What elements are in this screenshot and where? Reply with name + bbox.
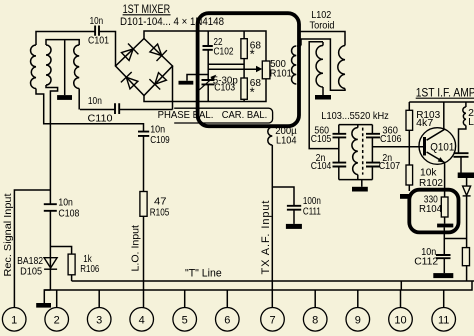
svg-text:L104: L104 <box>276 135 297 147</box>
svg-text:*: * <box>250 85 255 100</box>
svg-text:1: 1 <box>11 314 17 326</box>
svg-text:10: 10 <box>394 314 406 326</box>
svg-text:R105: R105 <box>150 207 170 219</box>
svg-text:C108: C108 <box>58 208 79 220</box>
svg-text:C111: C111 <box>303 206 321 218</box>
svg-text:D101-104... 4 × 1N4148: D101-104... 4 × 1N4148 <box>120 16 224 28</box>
svg-text:C103: C103 <box>214 82 235 94</box>
svg-text:R104: R104 <box>419 203 442 215</box>
svg-text:R102: R102 <box>419 177 443 189</box>
svg-text:C101: C101 <box>88 35 109 47</box>
svg-text:L.O. Input: L.O. Input <box>130 225 142 272</box>
svg-text:C109: C109 <box>150 134 170 146</box>
svg-text:C106: C106 <box>380 133 402 145</box>
svg-text:C110: C110 <box>88 112 113 124</box>
svg-text:2: 2 <box>54 314 60 326</box>
svg-text:R101: R101 <box>270 68 292 80</box>
svg-text:D105: D105 <box>20 265 42 277</box>
svg-text:Rec. Signal Input: Rec. Signal Input <box>2 193 14 276</box>
svg-text:*: * <box>250 47 255 62</box>
svg-text:11: 11 <box>438 314 449 326</box>
svg-text:"T" Line: "T" Line <box>185 268 222 280</box>
svg-text:R106: R106 <box>80 263 99 275</box>
svg-text:Toroid: Toroid <box>310 20 335 32</box>
svg-text:4k7: 4k7 <box>416 117 433 129</box>
svg-text:C102: C102 <box>214 46 234 58</box>
svg-text:L103...5520 kHz: L103...5520 kHz <box>321 110 389 122</box>
svg-text:TX A.F. Input: TX A.F. Input <box>260 201 272 275</box>
svg-text:L: L <box>468 116 474 128</box>
svg-text:3: 3 <box>96 314 102 326</box>
svg-text:10n: 10n <box>90 15 104 27</box>
svg-text:C112: C112 <box>414 256 438 268</box>
svg-text:8: 8 <box>312 314 318 326</box>
svg-text:C107: C107 <box>379 160 401 172</box>
svg-text:CAR. BAL.: CAR. BAL. <box>222 109 268 121</box>
svg-text:5: 5 <box>182 314 188 326</box>
svg-text:C105: C105 <box>311 133 332 145</box>
svg-text:6: 6 <box>224 314 230 326</box>
svg-text:7: 7 <box>269 314 275 326</box>
svg-text:Q101: Q101 <box>430 141 454 153</box>
svg-text:10n: 10n <box>88 95 102 107</box>
svg-text:PHASE BAL.: PHASE BAL. <box>158 109 214 121</box>
svg-text:9: 9 <box>355 314 361 326</box>
svg-text:C104: C104 <box>311 160 332 172</box>
svg-text:1ST MIXER: 1ST MIXER <box>123 4 171 16</box>
svg-text:4: 4 <box>139 314 145 326</box>
